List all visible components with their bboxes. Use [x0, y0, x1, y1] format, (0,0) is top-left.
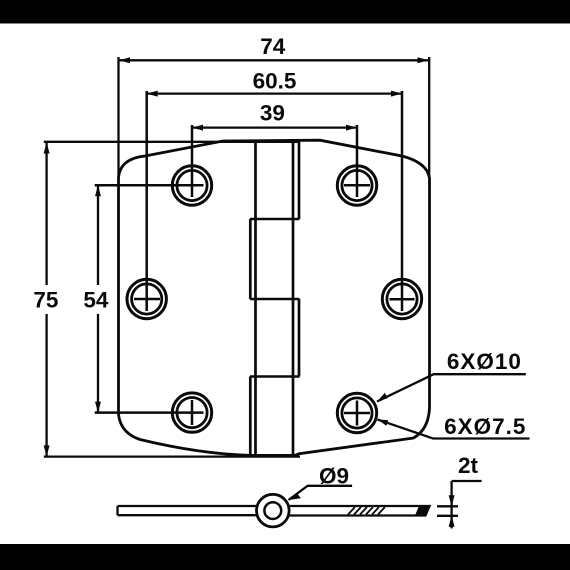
svg-text:75: 75	[33, 288, 58, 313]
arrow leader 6X d10	[377, 393, 388, 402]
hole top-right outer	[337, 166, 376, 205]
dimension 54 line	[97, 185, 99, 412]
leader 6X d10	[377, 374, 526, 401]
arrow leader 6X d7.5	[378, 420, 389, 426]
hinge plate outline	[119, 140, 430, 455]
dimension 74 line	[119, 59, 429, 61]
2t top tick	[437, 505, 458, 507]
dimension 74 left extension	[117, 57, 119, 178]
hole mid-left inner	[132, 284, 162, 314]
hole bottom-right inner	[342, 398, 372, 428]
crosshair mid-left hole (top arm is 60.5 extension)	[134, 91, 160, 311]
side view right bar end fill	[415, 506, 430, 516]
2t dimension vertical line	[450, 481, 452, 528]
leader d9	[289, 486, 353, 500]
crosshair top-right hole (top arm is 39 extension)	[344, 125, 370, 197]
knuckle segment 4 left edge	[249, 377, 252, 456]
hole mid-right inner	[387, 284, 417, 314]
arrow 54 bottom	[95, 402, 101, 413]
side view pin hole circle	[264, 502, 281, 519]
hole mid-right outer	[382, 279, 421, 318]
side view hatching	[348, 507, 427, 515]
side view knuckle outer circle	[257, 494, 290, 527]
arrow 75 bottom	[44, 445, 50, 456]
svg-text:Ø9: Ø9	[319, 464, 349, 489]
crosshair mid-right hole (top arm is 60.5 extension)	[390, 91, 415, 311]
hole bottom-left inner	[177, 398, 207, 428]
hole top-left inner	[177, 170, 207, 200]
svg-text:2t: 2t	[458, 453, 479, 478]
arrow 2t bottom (points up)	[449, 516, 455, 527]
knuckle segment 2 left edge	[249, 219, 252, 299]
knuckle joint line 2	[250, 298, 300, 301]
arrow 75 top	[44, 143, 50, 154]
knuckle joint line 3	[250, 375, 300, 378]
arrow 74 right	[418, 57, 429, 63]
arrow leader d9	[289, 494, 301, 501]
dimension 74 right extension	[428, 57, 430, 177]
svg-text:60.5: 60.5	[253, 69, 297, 94]
arrow 2t top (points down)	[449, 495, 455, 506]
knuckle joint line 1	[250, 218, 300, 221]
arrow 39 right	[346, 125, 357, 131]
knuckle segment 1 right edge	[298, 141, 301, 219]
hole top-left outer	[172, 166, 211, 205]
svg-text:54: 54	[83, 288, 109, 313]
leader 6X d7.5	[378, 420, 530, 439]
dimension 39 line	[192, 126, 357, 128]
hole top-right inner	[342, 170, 372, 200]
arrow 39 left	[192, 125, 203, 131]
2t dimension leader horizontal	[452, 480, 482, 482]
arrow 60.5 right	[391, 91, 402, 97]
crosshair bottom-right hole	[344, 401, 370, 426]
side view left leaf bar	[118, 506, 259, 515]
bottom letterbox bar	[0, 544, 570, 570]
hole mid-left outer	[127, 279, 166, 318]
knuckle segment 3 right edge	[298, 299, 301, 377]
2t bottom tick	[437, 515, 458, 517]
svg-text:39: 39	[260, 101, 285, 126]
dimension 75 bottom extension	[44, 455, 300, 457]
svg-text:6XØ7.5: 6XØ7.5	[444, 414, 526, 439]
top letterbox bar	[0, 0, 570, 24]
arrow 74 left	[119, 57, 130, 63]
arrow 54 top	[95, 185, 101, 196]
dimension 60.5 line	[147, 92, 402, 94]
svg-text:6XØ10: 6XØ10	[447, 349, 522, 374]
crosshair bottom-left hole (left arm is 54 extension)	[95, 400, 204, 425]
hinge knuckle barrel right full line	[292, 141, 295, 455]
arrow 60.5 left	[147, 91, 158, 97]
side view right leaf bar	[289, 506, 430, 516]
crosshair top-left hole (left arm is 54 extension, top arm is 39 extension)	[95, 125, 204, 197]
dimension 75 top extension	[44, 141, 299, 143]
hole bottom-right outer	[337, 393, 376, 432]
svg-text:74: 74	[260, 34, 286, 59]
hinge knuckle barrel left full line	[254, 141, 257, 455]
hole bottom-left outer	[172, 393, 211, 432]
dimension 75 line	[45, 143, 47, 457]
